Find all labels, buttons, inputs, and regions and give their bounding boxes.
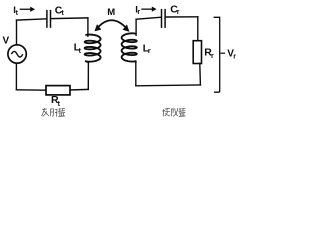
wire left vertical upper (Tx) [16, 20, 18, 45]
wire bottom-right horizontal (Tx) [70, 88, 88, 91]
svg-text:M: M [107, 7, 115, 18]
source V circle [8, 45, 26, 63]
svg-text:r: r [148, 48, 151, 55]
capacitor C1 plates (Tx) [47, 10, 51, 28]
wire left vertical lower (Rx) [135, 62, 137, 85]
wire top horizontal right (Rx) [166, 16, 198, 18]
wire bottom-left horizontal (Tx) [16, 89, 46, 91]
wire top horizontal left (Rx) [136, 17, 161, 19]
wire right vertical upper (Tx) [87, 18, 89, 36]
wire right vertical lower (Tx) [87, 62, 89, 90]
arrow current I1 (Tx) [20, 7, 35, 12]
svg-text:t: t [79, 48, 82, 55]
svg-text:r: r [233, 54, 236, 61]
caption transmitter 发射端 [42, 108, 65, 116]
svg-text:t: t [16, 10, 19, 17]
svg-text:r: r [137, 9, 140, 16]
arrow current I2 (Rx) [141, 7, 156, 12]
dash to Vr label [220, 52, 225, 54]
wire left vertical upper (Rx) [135, 19, 137, 35]
wire cap to corner (Tx top) [51, 17, 88, 20]
bracket Vr [214, 17, 220, 92]
caption receiver 接收端 [163, 108, 186, 116]
inductor L1 coil (Tx) [85, 35, 101, 63]
capacitor C2 plates (Rx) [162, 9, 166, 28]
resistor R2 box (Rx) [193, 41, 201, 64]
mutual coupling arrow M [95, 20, 130, 32]
wire top-left horizontal (Tx) [17, 19, 47, 20]
wire left vertical lower (Tx) [15, 63, 17, 90]
resistor R1 box (Tx) [46, 86, 70, 95]
svg-text:t: t [62, 10, 65, 17]
wire right vertical upper (Rx) [197, 17, 199, 41]
wire right vertical lower (Rx) [199, 63, 202, 85]
svg-text:t: t [58, 101, 61, 108]
svg-text:r: r [177, 9, 180, 16]
svg-text:r: r [211, 53, 214, 60]
wire bottom horizontal (Rx) [136, 84, 201, 87]
svg-text:V: V [3, 36, 10, 47]
inductor L2 coil (Rx) [122, 33, 137, 62]
source V sine [11, 51, 22, 57]
